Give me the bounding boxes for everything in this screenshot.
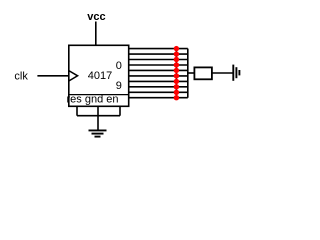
wire joining res gnd en — [77, 115, 120, 117]
ground bottom — [89, 130, 107, 136]
wire R1 to ground — [212, 72, 233, 74]
svg-text:9: 9 — [116, 80, 122, 92]
wire clk input — [37, 75, 68, 77]
IC U1 4017 decade counter body — [69, 45, 129, 106]
svg-text:0: 0 — [116, 60, 122, 72]
wire bus right vertical — [187, 49, 189, 98]
wire vcc to U1 — [95, 22, 97, 46]
wire output pin 1 — [129, 53, 188, 55]
wire output pin 5 — [129, 75, 188, 77]
wire output pin 7 — [129, 86, 188, 88]
wire output pin 8 — [129, 91, 188, 93]
svg-text:res gnd en: res gnd en — [67, 94, 119, 106]
wire res pin down — [76, 106, 78, 115]
svg-text:4017: 4017 — [88, 70, 112, 82]
junction dots column — [174, 46, 179, 101]
wire output pin 3 — [129, 64, 188, 66]
resistor R1 — [194, 67, 212, 79]
wire en pin down — [119, 106, 121, 115]
U1 clock chevron — [69, 71, 78, 81]
svg-text:clk: clk — [14, 70, 28, 82]
ground right — [233, 65, 239, 81]
wire output pin 6 — [129, 80, 188, 82]
U1 pin-name separator line — [69, 94, 129, 96]
wire bus to R1 — [188, 72, 195, 74]
svg-text:vcc: vcc — [87, 11, 105, 23]
wire bus vertical — [175, 49, 177, 98]
wire output pin 9 — [129, 97, 188, 99]
wire output pin 0 — [129, 48, 188, 50]
wire output pin 4 — [129, 69, 188, 71]
wire gnd pin down — [97, 106, 99, 130]
wire output pin 2 — [129, 59, 188, 61]
